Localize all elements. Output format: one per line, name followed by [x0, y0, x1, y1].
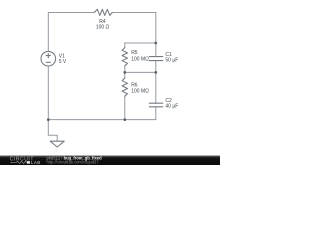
junction node between R5 and R6 left	[123, 71, 126, 74]
wire: node line top of R5	[125, 42, 156, 44]
V1 plus sign	[46, 54, 50, 58]
capacitor C1 plates	[149, 57, 163, 61]
CircuitLab logo node box	[27, 161, 30, 164]
wire: right vertical from top to C1 top plate	[155, 13, 157, 57]
wire: node line between R5 and R6	[125, 71, 156, 73]
wire: right vertical below C2	[155, 107, 157, 120]
junction node at top of R5 branch	[154, 42, 157, 45]
svg-text:100 MΩ: 100 MΩ	[131, 56, 149, 62]
wire: bottom horizontal	[48, 119, 156, 121]
wire: R6 leads	[124, 72, 126, 119]
wire: V1 bottom lead to ground jog	[48, 66, 57, 141]
junction node at V1 bottom	[47, 118, 50, 121]
V1 minus sign	[46, 61, 50, 63]
capacitor C2 plates	[149, 103, 163, 107]
resistor R5 zigzag	[122, 48, 127, 66]
wire: R5 leads	[124, 43, 126, 72]
svg-text:40 µF: 40 µF	[165, 104, 178, 110]
svg-text:100 MΩ: 100 MΩ	[131, 88, 149, 94]
svg-text:5 V: 5 V	[59, 59, 67, 65]
svg-text:LAB: LAB	[31, 160, 41, 165]
svg-text:100 Ω: 100 Ω	[96, 24, 110, 30]
watermark bar	[0, 155, 220, 165]
wire: top horizontal left of R4	[48, 12, 94, 14]
wire: top horizontal right of R4	[112, 12, 156, 14]
ground symbol	[50, 141, 64, 147]
wire: V1 top lead vertical	[47, 13, 49, 52]
svg-text:http://circuitlab.com/c6qud37: http://circuitlab.com/c6qud37	[47, 160, 100, 165]
junction node bottom left branch	[123, 118, 126, 121]
CircuitLab logo zigzag	[10, 161, 30, 163]
voltage source V1 circle	[41, 51, 56, 66]
svg-text:50 µF: 50 µF	[165, 58, 178, 64]
resistor R4 zigzag	[94, 9, 112, 15]
svg-text:R5: R5	[131, 50, 138, 56]
junction node between C1 and C2 right	[154, 71, 157, 74]
wire: right vertical between C1 and C2	[155, 61, 157, 104]
resistor R6 zigzag	[122, 78, 127, 96]
schematic background	[0, 0, 220, 165]
